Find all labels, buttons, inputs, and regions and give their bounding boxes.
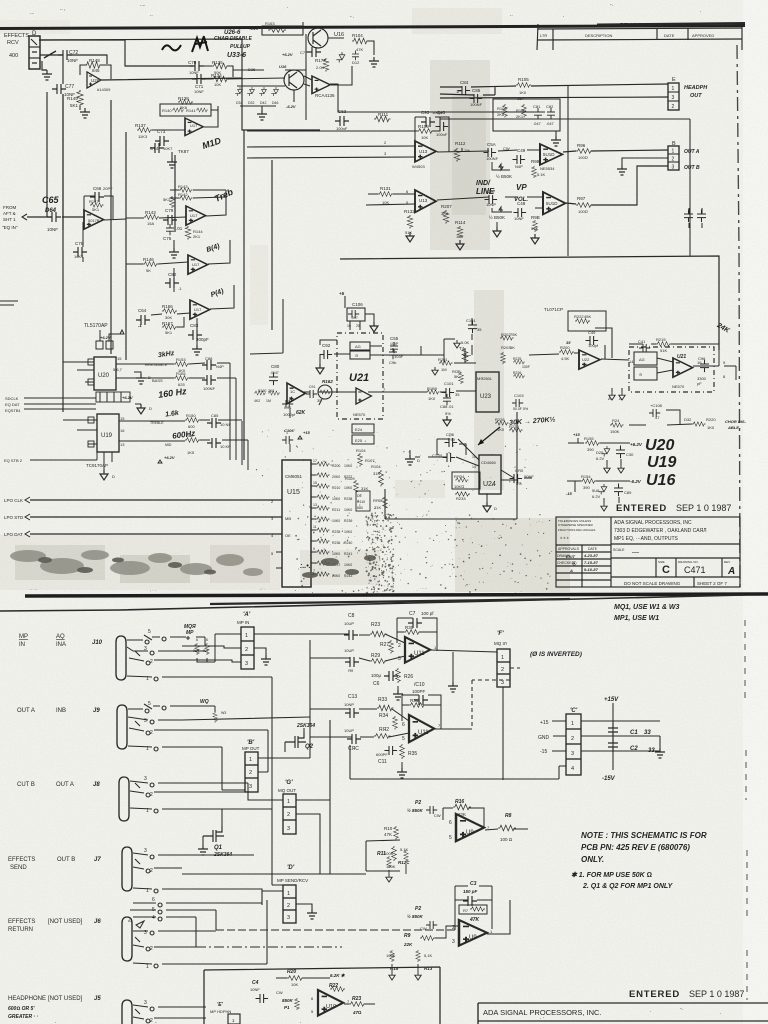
wire pin2 D switch <box>40 55 107 64</box>
E-boxes right of ladder <box>352 424 374 433</box>
ground U24 <box>486 494 488 502</box>
IC U24 <box>479 455 501 494</box>
wire vertical bus x306 <box>233 34 306 120</box>
wire pin1 D to right <box>40 40 193 66</box>
grounds below U19 <box>104 452 112 470</box>
op-amp U22 <box>579 350 600 369</box>
grounds TA TA <box>612 388 622 392</box>
wire opamp out <box>39 39 320 130</box>
feedback box R140 R141 <box>160 104 211 116</box>
page2 top border <box>0 595 745 611</box>
pin cluster above U20 <box>96 341 103 349</box>
wire to OUT A <box>563 150 668 152</box>
resistor R144 2K1 <box>185 226 191 240</box>
opamp expander <box>287 383 305 404</box>
IC U16 circle <box>308 28 328 48</box>
opamp inside right U21 <box>673 358 693 377</box>
op-amp U12 <box>540 144 562 165</box>
revisions table <box>537 22 742 50</box>
wires B <box>258 730 310 772</box>
jack J9 <box>117 705 127 749</box>
scan speckle noise <box>256 430 552 596</box>
long wire J7 ring <box>182 873 366 875</box>
transistor Q10 <box>284 70 304 90</box>
capacitor C65 <box>47 212 61 222</box>
capacitor C1 33 <box>608 723 618 737</box>
ground u20 <box>134 372 141 374</box>
op-amp U14 <box>543 192 565 214</box>
op-amp U13 <box>415 141 436 162</box>
main wire through <box>303 391 427 393</box>
wires to A <box>182 634 241 662</box>
op-amp U15 RCA4136 <box>312 76 330 94</box>
ground D <box>296 904 312 909</box>
IC U20 <box>94 357 116 390</box>
ground F2 <box>452 652 454 682</box>
big box border mid <box>340 256 719 350</box>
input wires U13 <box>247 117 440 158</box>
dashed box U21 left <box>337 333 383 419</box>
resistor R163 box <box>262 26 303 35</box>
headphone amp box <box>204 967 440 1024</box>
op-amp U9a <box>456 814 484 841</box>
capacitor C77b <box>307 47 321 57</box>
wires G <box>248 720 330 874</box>
jack J10 <box>116 636 126 680</box>
op-amp U17a MID <box>185 118 203 136</box>
ground filter box <box>555 131 557 136</box>
op-amp U28 LF347 <box>87 72 101 88</box>
vertical feeders to U18 <box>218 363 248 470</box>
diode D25 <box>601 446 609 457</box>
dark scan smudges bottom-left <box>10 550 263 576</box>
pin cluster between U20 U19 <box>96 392 130 402</box>
cells inside right U21 <box>634 352 657 365</box>
scan gray patches <box>743 0 768 1024</box>
diode R110 box <box>356 491 370 511</box>
op-amp U11a <box>405 637 430 663</box>
page2 right border dashes <box>745 620 747 1000</box>
long wire to C pin4 <box>350 745 559 779</box>
ground pitch <box>192 345 202 355</box>
delta-G cells <box>350 342 370 350</box>
ground opamp <box>80 108 90 118</box>
transistor Q1 <box>203 826 224 842</box>
capacitor C87 <box>202 375 216 385</box>
wire to OUT B <box>566 166 668 205</box>
capacitor C86 <box>207 438 221 448</box>
right page border <box>737 45 740 590</box>
handwritten squiggles <box>162 45 181 50</box>
R234 box <box>452 472 480 489</box>
out wire U13b <box>437 197 489 200</box>
R233 resistor <box>455 492 470 496</box>
ground R132 <box>406 232 414 242</box>
op-amp U13b <box>415 190 436 212</box>
transistor emitter stub <box>293 90 295 102</box>
jack J7 <box>122 847 132 891</box>
ground C6 R26 <box>397 686 399 690</box>
resistor R145 5K1 <box>170 196 175 208</box>
op-amp U17c Bump <box>188 255 208 274</box>
op-amp U17b Treb <box>186 206 206 225</box>
ground R114 <box>456 240 464 250</box>
U18 resistor ladder R200-R211 <box>311 459 352 578</box>
ground diodes <box>257 110 267 120</box>
page1 bottom edge line <box>25 594 768 596</box>
filter box R106 R108 C81 C82 <box>493 99 560 131</box>
ground R35 <box>401 762 403 768</box>
ground pin2 B <box>622 158 668 165</box>
capacitor C89 <box>614 484 623 497</box>
op-amp U17d Pitch <box>190 300 210 319</box>
ground C118 <box>409 450 411 455</box>
diode D13 cap C12 <box>336 52 344 63</box>
IC U23 <box>476 372 499 412</box>
ground treble <box>173 240 175 248</box>
ADA title strip <box>478 1003 768 1024</box>
ground R98 <box>531 234 539 244</box>
capacitor C30 <box>616 446 625 459</box>
op-amp U9b <box>459 920 487 946</box>
left edge wire fragments <box>0 301 18 305</box>
capacitor C2 33 <box>608 738 618 752</box>
top border line <box>0 26 745 29</box>
vertical feeders page2 left <box>272 640 330 885</box>
R11 box <box>366 840 400 871</box>
jack J5 <box>122 1000 132 1024</box>
jack J6 <box>122 917 132 961</box>
op-amp U10 <box>318 990 343 1016</box>
top margin noise specks <box>30 2 701 20</box>
wires D <box>262 885 283 905</box>
transistor Q2 <box>285 732 306 748</box>
op-amp U30 input <box>84 210 104 229</box>
dashed W3 wire <box>472 668 520 729</box>
IC U18 tall <box>282 460 311 587</box>
vertical section divider wires <box>440 86 690 256</box>
vertical bus wires left <box>47 92 272 460</box>
ground A <box>254 648 266 655</box>
capacitor C50 C51 pair <box>684 210 693 223</box>
ground U17a <box>171 152 173 158</box>
op-amp U11b <box>409 715 434 742</box>
jack J8 <box>119 777 129 821</box>
wire eq in <box>27 216 84 218</box>
ground right <box>369 57 379 67</box>
EQ STB 2 stamp noise row at 588 <box>30 585 428 592</box>
bottom specks <box>55 1019 301 1024</box>
wires to headphone connector <box>440 84 668 95</box>
compander opamp inside U21 <box>356 388 371 404</box>
IC U19 <box>97 414 119 452</box>
diode D26 <box>598 484 606 495</box>
ground C2 <box>659 736 661 748</box>
out wire U13 <box>437 148 540 152</box>
W resistor pair J10 <box>182 637 205 651</box>
resistor R7 47K box <box>459 905 487 914</box>
title block <box>556 517 740 587</box>
ground below D <box>42 61 47 70</box>
long wire A1 to C8 <box>254 633 349 635</box>
ground pot <box>496 222 498 227</box>
wire U15 out <box>330 84 545 112</box>
dashed box U21 right <box>629 347 714 392</box>
wires U13b to U14 <box>505 197 543 208</box>
